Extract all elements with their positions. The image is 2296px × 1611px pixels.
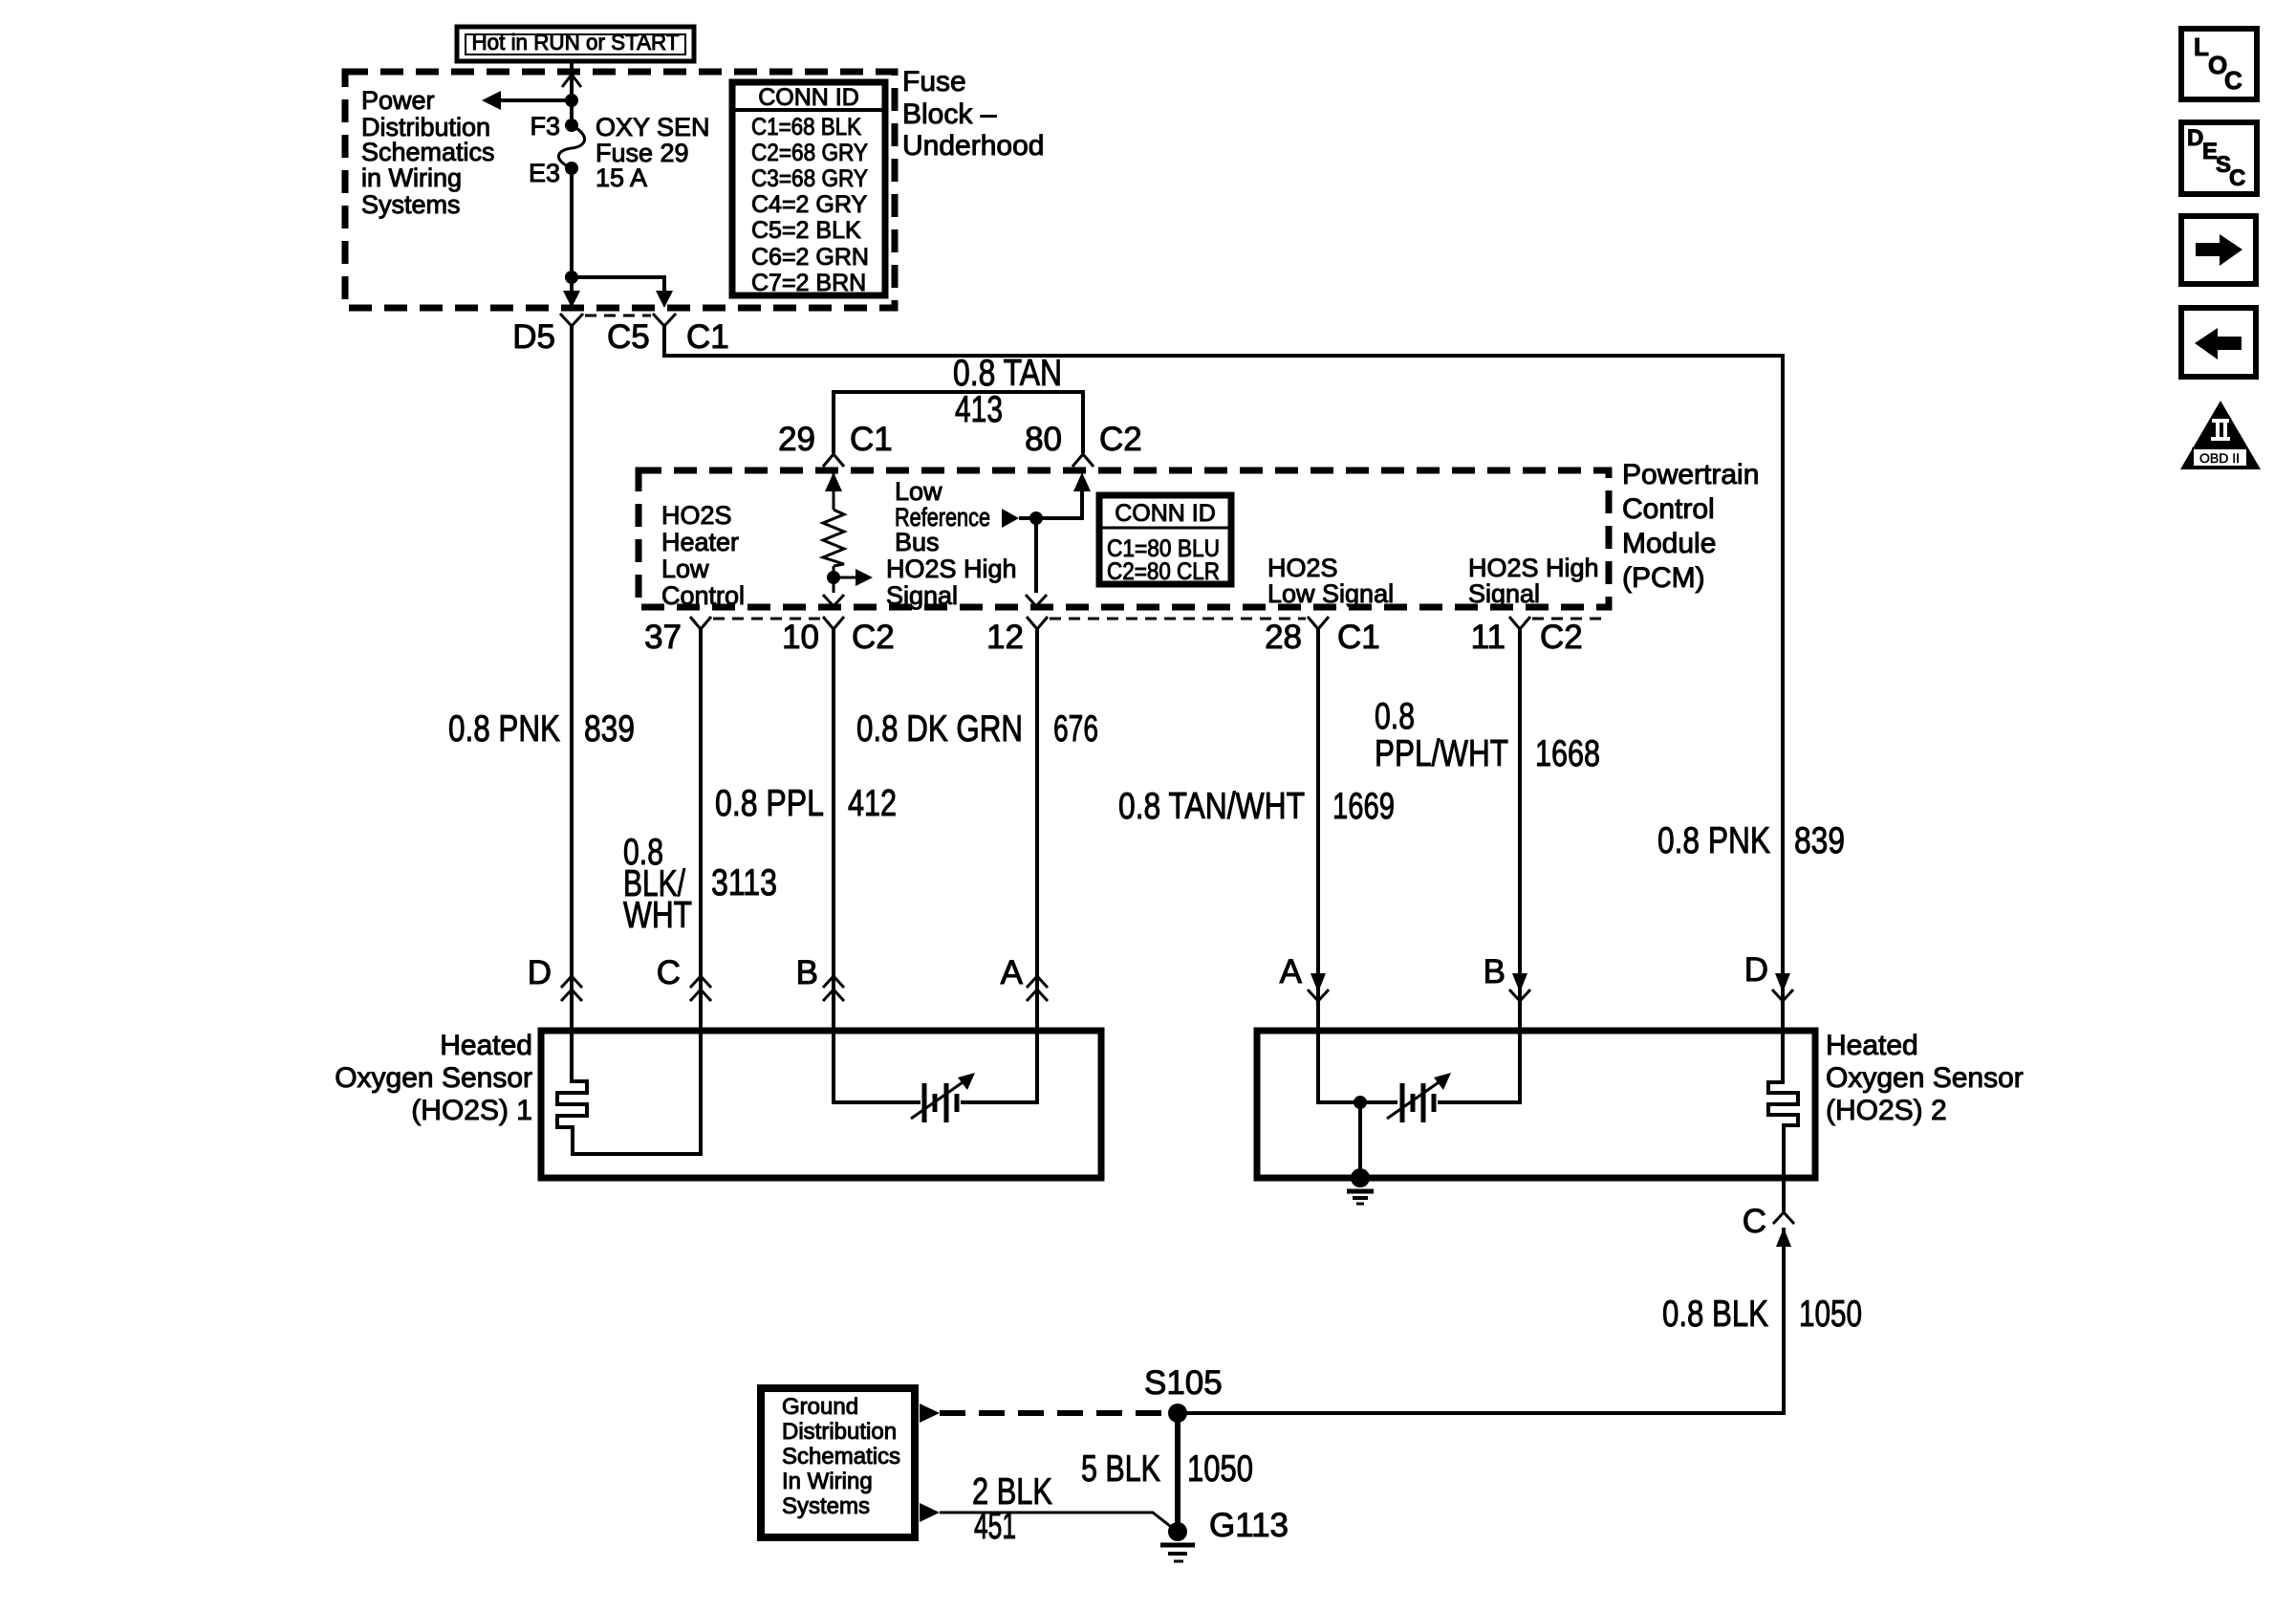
svg-text:11: 11 bbox=[1471, 619, 1505, 656]
svg-text:5 BLK: 5 BLK bbox=[1081, 1448, 1160, 1490]
label "Powertrain Control Module (PCM)" bbox=[1622, 459, 1759, 594]
svg-text:C2: C2 bbox=[1099, 421, 1142, 458]
ground G113 bbox=[1160, 1522, 1195, 1561]
svg-text:HO2S High: HO2S High bbox=[1468, 554, 1599, 582]
svg-text:Heated: Heated bbox=[1826, 1030, 1918, 1061]
svg-text:L: L bbox=[2194, 33, 2209, 61]
label HO2S Low Signal (pin28) bbox=[1267, 554, 1394, 608]
HO2S2 pin A connector arrow bbox=[1308, 973, 1329, 1001]
svg-text:Ground: Ground bbox=[782, 1394, 858, 1420]
svg-text:0.8 TAN/WHT: 0.8 TAN/WHT bbox=[1118, 786, 1305, 827]
HO2S1 pin D connector bbox=[561, 976, 582, 1001]
svg-text:C1: C1 bbox=[850, 421, 893, 458]
table CONN ID (PCM) bbox=[1099, 495, 1231, 585]
connector dashed link PCM bottom bbox=[713, 618, 821, 620]
label 0.8 BLK/WHT 3113 bbox=[623, 832, 777, 936]
arrow Low Reference Bus bbox=[1002, 509, 1019, 528]
wire: HO2S2 heater low through case bbox=[1782, 1178, 1786, 1211]
node: junction at fuse feed bbox=[565, 94, 578, 107]
fuse value text bbox=[596, 113, 710, 192]
icon arrow right bbox=[2181, 216, 2256, 284]
svg-text:0.8 DK GRN: 0.8 DK GRN bbox=[856, 708, 1023, 750]
icon OBD II triangle bbox=[2180, 401, 2261, 469]
svg-text:12: 12 bbox=[986, 619, 1024, 656]
svg-text:C: C bbox=[1743, 1203, 1766, 1240]
wire 412 PPL pin10 to HO2S1 B bbox=[832, 629, 835, 1031]
arrow: D5 exit bbox=[563, 291, 580, 308]
svg-text:Signal: Signal bbox=[1468, 579, 1540, 608]
connector cups PCM bottom bbox=[690, 617, 711, 629]
node: branch junction bbox=[565, 271, 578, 284]
svg-text:451: 451 bbox=[974, 1506, 1016, 1547]
svg-text:In Wiring: In Wiring bbox=[782, 1469, 873, 1494]
ground (HO2S2 case) bbox=[1347, 1168, 1374, 1204]
svg-text:PPL/WHT: PPL/WHT bbox=[1375, 733, 1508, 774]
svg-text:C5=2 BLK: C5=2 BLK bbox=[751, 217, 861, 244]
svg-text:(HO2S) 1: (HO2S) 1 bbox=[411, 1095, 532, 1126]
svg-text:C4=2 GRY: C4=2 GRY bbox=[751, 191, 867, 218]
svg-text:OBD II: OBD II bbox=[2199, 450, 2240, 466]
svg-text:in Wiring: in Wiring bbox=[361, 163, 462, 192]
svg-text:Underhood: Underhood bbox=[902, 130, 1044, 162]
svg-text:C2=80 CLR: C2=80 CLR bbox=[1107, 558, 1220, 585]
svg-text:0.8 TAN: 0.8 TAN bbox=[953, 353, 1062, 394]
icon DESC bbox=[2181, 122, 2257, 194]
connector cup pin 29 bbox=[823, 454, 844, 467]
svg-text:C: C bbox=[2229, 165, 2245, 191]
heater element HO2S1 bbox=[557, 1031, 701, 1154]
sensing cell HO2S2 (variable battery) bbox=[1318, 1031, 1520, 1122]
icon LOC bbox=[2181, 29, 2257, 99]
svg-text:OXY SEN: OXY SEN bbox=[596, 113, 710, 142]
svg-text:B: B bbox=[796, 954, 818, 991]
svg-text:Systems: Systems bbox=[782, 1493, 870, 1519]
wire 1050 BLK: pin C to S105 bbox=[1178, 1228, 1784, 1413]
svg-text:C3=68 GRY: C3=68 GRY bbox=[751, 165, 868, 192]
svg-text:Schematics: Schematics bbox=[361, 138, 495, 166]
svg-text:0.8 PPL: 0.8 PPL bbox=[715, 783, 824, 824]
wire: C1 to HO2S2 pin D (PNK 839) bbox=[664, 326, 1783, 1031]
svg-text:Powertrain: Powertrain bbox=[1622, 459, 1759, 490]
wire 676 DK GRN pin12 to HO2S1 A bbox=[1035, 629, 1039, 1031]
node: HO2S2 low junction bbox=[1354, 1096, 1367, 1109]
HO2S1 pin A connector bbox=[1027, 976, 1048, 1001]
svg-text:Fuse: Fuse bbox=[902, 66, 966, 98]
svg-text:D5: D5 bbox=[512, 318, 555, 356]
dashed wire: S105 to ground distribution bbox=[940, 1410, 1168, 1416]
svg-text:Oxygen Sensor: Oxygen Sensor bbox=[1826, 1062, 2024, 1094]
svg-text:0.8 PNK: 0.8 PNK bbox=[1657, 820, 1770, 861]
arrow into pin 29 bbox=[825, 472, 842, 491]
svg-text:A: A bbox=[1280, 953, 1303, 991]
svg-text:C1=68 BLK: C1=68 BLK bbox=[751, 114, 861, 141]
svg-text:B: B bbox=[1484, 953, 1505, 991]
label "Fuse Block - Underhood" bbox=[902, 66, 1044, 162]
svg-text:F3: F3 bbox=[530, 112, 560, 141]
svg-text:413: 413 bbox=[955, 389, 1003, 430]
label box "Hot in RUN or START" bbox=[457, 27, 694, 61]
svg-text:1050: 1050 bbox=[1187, 1448, 1253, 1490]
svg-text:Bus: Bus bbox=[895, 528, 940, 556]
svg-text:Oxygen Sensor: Oxygen Sensor bbox=[335, 1062, 532, 1094]
wire: Hot in RUN feed into fuse block bbox=[562, 61, 581, 125]
svg-text:Control: Control bbox=[1622, 493, 1715, 525]
sensing cell HO2S1 (variable battery) bbox=[834, 1031, 1037, 1122]
icon arrow left bbox=[2181, 308, 2256, 377]
svg-text:839: 839 bbox=[1794, 820, 1845, 861]
arrow: into pin C bbox=[1776, 1228, 1791, 1247]
svg-text:29: 29 bbox=[778, 421, 815, 458]
svg-text:80: 80 bbox=[1025, 421, 1062, 458]
connector chevron pin 10 bbox=[823, 595, 844, 606]
note box Ground Distribution Schematics In Wiring Systems bbox=[761, 1388, 915, 1537]
svg-text:D: D bbox=[1744, 951, 1768, 989]
svg-text:C1: C1 bbox=[686, 318, 729, 356]
fuse block dashed outline bbox=[345, 72, 895, 308]
label HO2S Heater Low Control bbox=[661, 501, 745, 610]
svg-text:C1: C1 bbox=[1337, 619, 1380, 656]
svg-text:Heated: Heated bbox=[440, 1030, 532, 1061]
arrow into pin 80 bbox=[1073, 472, 1091, 491]
svg-text:HO2S: HO2S bbox=[1267, 554, 1338, 582]
svg-text:HO2S: HO2S bbox=[661, 501, 732, 530]
HO2S sensor 1 box bbox=[541, 1031, 1101, 1178]
PCM module dashed outline bbox=[639, 470, 1609, 607]
node S105 bbox=[1168, 1404, 1187, 1423]
svg-text:Low: Low bbox=[895, 477, 942, 506]
connector cup pin 80 bbox=[1072, 454, 1094, 467]
HO2S1 pin C connector bbox=[690, 976, 711, 1001]
HO2S sensor 2 box bbox=[1257, 1031, 1815, 1178]
wire 1668 PPL/WHT pin11 to HO2S2 B bbox=[1518, 629, 1522, 1031]
svg-text:676: 676 bbox=[1053, 708, 1098, 750]
label HO2S High Signal (pin10) bbox=[886, 555, 1017, 610]
svg-text:CONN ID: CONN ID bbox=[1115, 500, 1216, 527]
svg-text:C5: C5 bbox=[607, 318, 650, 356]
wire: low reference bus bbox=[1019, 491, 1082, 518]
connector C1 cup bbox=[653, 314, 676, 326]
svg-text:1669: 1669 bbox=[1332, 786, 1395, 827]
table CONN ID (fuse block) bbox=[732, 82, 885, 296]
wire 1669 TAN/WHT pin28 to HO2S2 A bbox=[1316, 629, 1320, 1031]
svg-text:C6=2 GRN: C6=2 GRN bbox=[751, 244, 869, 271]
label Heated Oxygen Sensor (HO2S) 2 bbox=[1826, 1030, 2024, 1126]
label HO2S High Signal (pin11) bbox=[1468, 554, 1599, 608]
wire: branch arrow to power distribution bbox=[482, 91, 572, 110]
svg-text:C2: C2 bbox=[852, 619, 895, 656]
svg-text:3113: 3113 bbox=[711, 862, 777, 903]
wire: bus to pin 12 bbox=[1034, 518, 1038, 593]
wire 3113 BLK/WHT pin37 to HO2S1 C bbox=[699, 629, 703, 1031]
svg-text:E3: E3 bbox=[529, 159, 560, 187]
svg-text:(HO2S) 2: (HO2S) 2 bbox=[1826, 1095, 1947, 1126]
svg-text:Hot in RUN or START: Hot in RUN or START bbox=[472, 30, 680, 54]
svg-text:Heater: Heater bbox=[661, 528, 739, 556]
label 0.8 PPL/WHT 1668 bbox=[1375, 696, 1600, 774]
connector D5/C5 cup bbox=[560, 314, 583, 326]
wire 839 PNK: D5 to HO2S1 pin D bbox=[570, 326, 574, 1031]
heater element HO2S2 bbox=[1768, 1031, 1798, 1178]
svg-text:A: A bbox=[1001, 954, 1024, 991]
label Heated Oxygen Sensor (HO2S) 1 bbox=[335, 1030, 532, 1126]
svg-text:1050: 1050 bbox=[1799, 1294, 1862, 1335]
svg-text:C: C bbox=[657, 954, 681, 991]
HO2S2 pin B connector arrow bbox=[1509, 973, 1530, 1001]
svg-text:412: 412 bbox=[848, 783, 897, 824]
svg-text:Low Signal: Low Signal bbox=[1267, 579, 1394, 608]
note "Power Distribution Schematics in Wiring Systems" bbox=[361, 86, 495, 219]
node: junction HO2S high signal bbox=[827, 571, 840, 584]
svg-text:D: D bbox=[2187, 125, 2203, 151]
connector dashed link bbox=[585, 315, 651, 317]
svg-text:Schematics: Schematics bbox=[782, 1444, 900, 1469]
resistor (PCM internal) bbox=[823, 472, 844, 593]
svg-text:Control: Control bbox=[661, 581, 745, 610]
svg-text:37: 37 bbox=[644, 619, 682, 656]
label Low Reference Bus bbox=[895, 477, 990, 556]
svg-text:Module: Module bbox=[1622, 528, 1716, 559]
svg-text:HO2S High: HO2S High bbox=[886, 555, 1017, 583]
svg-text:S105: S105 bbox=[1144, 1364, 1223, 1402]
svg-text:Distribution: Distribution bbox=[782, 1419, 897, 1445]
svg-text:28: 28 bbox=[1265, 619, 1302, 656]
wire 0.8 TAN 413 bracket pins 29-80 bbox=[834, 392, 1083, 453]
svg-text:1668: 1668 bbox=[1535, 733, 1600, 774]
svg-text:10: 10 bbox=[782, 619, 819, 656]
arrow: C1 exit bbox=[656, 291, 673, 308]
HO2S1 pin B connector bbox=[823, 976, 844, 1001]
fuse F29 "OXY SEN Fuse 29 15 A" bbox=[558, 119, 584, 175]
svg-text:Systems: Systems bbox=[361, 190, 461, 219]
arrow: ground distribution top bbox=[920, 1404, 940, 1423]
wire: branch to C1 output bbox=[572, 277, 664, 294]
svg-text:C7=2 BRN: C7=2 BRN bbox=[751, 270, 866, 296]
svg-text:0.8 PNK: 0.8 PNK bbox=[448, 708, 560, 750]
svg-text:G113: G113 bbox=[1209, 1507, 1289, 1544]
svg-text:Signal: Signal bbox=[886, 581, 958, 610]
connector chevron pin 12 bbox=[1026, 595, 1047, 606]
svg-text:C: C bbox=[2224, 66, 2242, 95]
svg-text:Block –: Block – bbox=[902, 98, 997, 130]
wire: fuse output down bbox=[570, 168, 574, 294]
svg-text:WHT: WHT bbox=[623, 895, 692, 936]
wire 1050 BLK 5: S105 to G113 bbox=[1175, 1413, 1180, 1532]
HO2S2 pin D connector arrow bbox=[1772, 973, 1793, 1001]
svg-text:Power: Power bbox=[361, 86, 435, 115]
svg-text:839: 839 bbox=[584, 708, 635, 750]
connector chevron pin C bbox=[1773, 1212, 1794, 1224]
wire: junction to case ground bbox=[1358, 1102, 1362, 1178]
svg-text:0.8: 0.8 bbox=[1375, 696, 1415, 737]
svg-text:D: D bbox=[528, 954, 552, 991]
svg-text:0.8 BLK: 0.8 BLK bbox=[1662, 1294, 1768, 1335]
svg-text:CONN ID: CONN ID bbox=[758, 84, 859, 111]
svg-text:C2: C2 bbox=[1540, 619, 1583, 656]
arrow HO2S High Signal bbox=[834, 569, 873, 586]
wire 451 BLK 2 bbox=[920, 1503, 1175, 1530]
svg-text:15 A: 15 A bbox=[596, 163, 647, 192]
node: bus junction bbox=[1029, 512, 1043, 525]
svg-text:C2=68 GRY: C2=68 GRY bbox=[751, 140, 868, 166]
svg-text:Low: Low bbox=[661, 555, 709, 583]
svg-text:(PCM): (PCM) bbox=[1622, 562, 1705, 594]
